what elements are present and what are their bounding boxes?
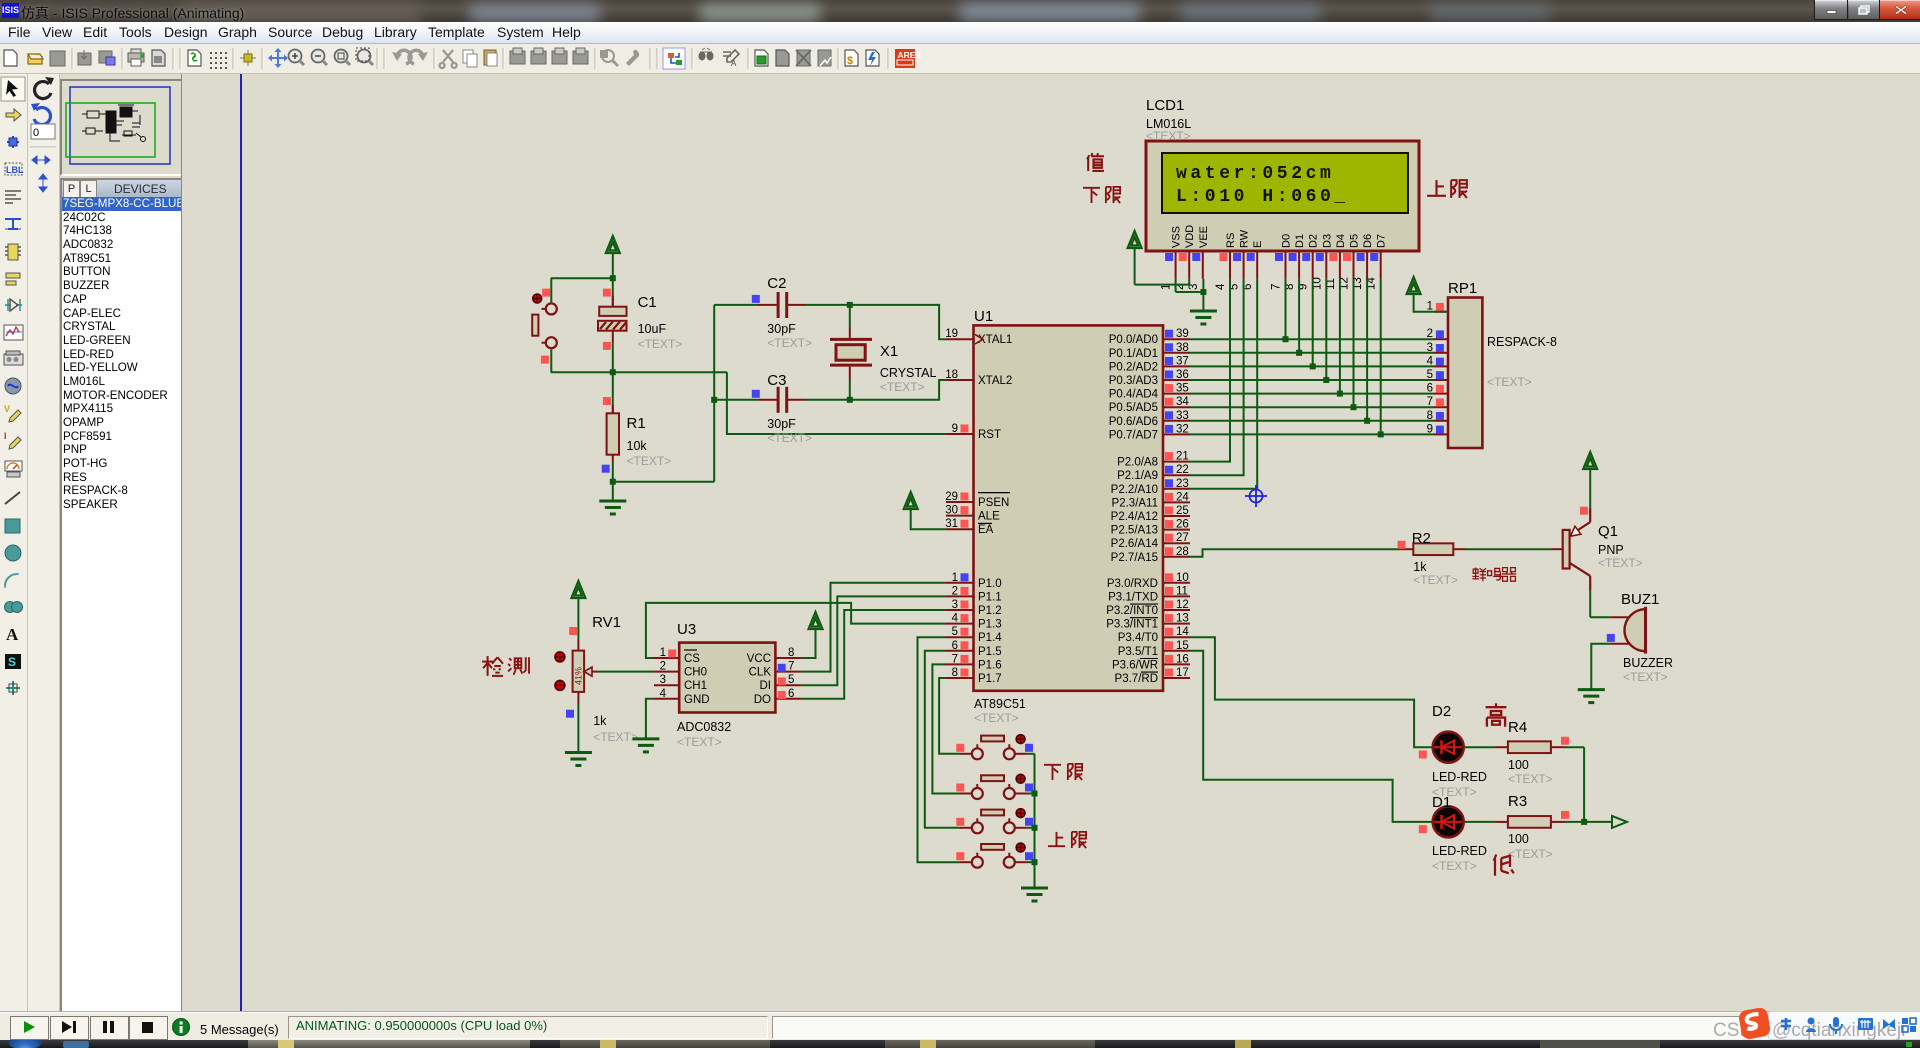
wire VSS to ground junction [1175,279,1177,292]
wire Q1 collector to buzzer [1589,590,1591,617]
C1 state squares [603,289,611,297]
annotation 下限 (buttons) [1044,765,1061,780]
svg-text:V: V [4,404,10,414]
resistor R2 1k [1401,548,1414,550]
wire C1 to lower rail [612,341,614,372]
junction X1 bottom [847,397,853,403]
U1 left pin stubs [946,338,974,340]
wire P2.7 to R2 [1190,549,1401,557]
reset button squares [542,289,550,297]
LCD1 LM016L display body [1146,141,1419,251]
resistor R4 100 [1464,746,1494,748]
junction top of C1 [610,275,616,281]
svg-text:S: S [8,655,16,669]
wire DI to P1.1 [802,596,946,685]
junction VEE/VSS [1200,289,1206,295]
RP1 pin1 power wire [1414,294,1448,312]
wire RW to P2.1 [1190,279,1244,475]
RV1 to ground [577,703,579,753]
wire P3.4 to D2 [1190,637,1432,747]
wire R2 to Q1 base [1466,548,1550,550]
buzzer to ground [1591,644,1610,690]
power symbol above RP1 [1407,277,1421,294]
output terminal arrow [1584,821,1612,823]
annotation 蜂鸣器 [1472,568,1486,582]
svg-text:I: I [4,431,7,441]
annotation 高 [1486,703,1507,726]
RP1 pin stubs numbers squares [1434,311,1448,313]
annotation 低 [1494,855,1514,876]
watermark [1500,1016,1920,1046]
wire VEE down to ground [1202,279,1204,311]
svg-text:$: $ [847,55,853,67]
reset button BUTTON vertical [550,278,552,302]
junction C1/R1 [610,369,616,375]
power above Q1 [1583,452,1597,469]
wire XTAL1 [850,305,946,339]
svg-text:ARES: ARES [898,50,922,60]
svg-text:A: A [6,625,19,644]
power symbol above C1 [606,236,620,253]
capacitor C1 10uF electrolytic [612,296,614,307]
crystal X1 [849,305,851,327]
junction X1 top [847,302,853,308]
wire R4 down to R3 node [1565,746,1585,748]
annotation 检测 [482,656,503,676]
buttons to P1.4-P1.7 wires [939,678,959,754]
power symbol EA [904,492,918,509]
wire CLK to P1.0 [802,583,946,672]
ADC U3 ADC0832 body [679,643,775,713]
svg-text:A: A [731,59,737,68]
button S3 [959,827,972,829]
P0 rows to RP1 [1190,338,1434,340]
annotation 下限 (LCD) [1083,188,1100,203]
transistor Q1 PNP [1563,530,1570,569]
junction under R1 [610,479,616,485]
LED D2 LED-RED [1432,746,1464,748]
LED D1 LED-RED [1432,821,1464,823]
resistor R1 10k [612,372,614,413]
edit cursor crosshair [1245,485,1267,507]
lower rail to RST [551,371,727,373]
svg-text:LBL: LBL [6,165,24,175]
button S4 [959,861,972,863]
resistor R3 100 [1464,821,1494,823]
wire R1 junction to caps vertical [613,481,714,483]
wire VDD to power [1135,284,1190,286]
data bus D0-D7 verticals [1285,279,1287,339]
wire DO to P1.2 [802,610,946,699]
U1 right pin stubs [1163,338,1190,340]
power symbol above RV1 [571,581,585,598]
U3 VCC to power [802,629,816,658]
chip U1 AT89C51 body [974,325,1164,690]
ground under R1 [599,501,626,514]
annotation 值 [1087,153,1104,171]
svg-text:0: 0 [33,127,39,139]
wire EA to power [911,509,946,529]
buttons common trunk [1034,754,1036,888]
annotation 上限 (LCD) [1427,180,1446,196]
buzzer BUZ1 [1611,616,1629,618]
resistor pack RP1 RESPACK-8 body [1448,298,1482,449]
button S2 [959,793,972,795]
wire into C1 [612,278,614,307]
potentiometer RV1 POT-HG [577,640,579,651]
power symbol left of LCD [1128,231,1142,248]
junction R3/R4 [1581,819,1587,825]
annotation 上限 (buttons) [1048,832,1065,846]
capacitor C2 30pF [714,304,758,306]
wire R1 to ground [612,462,614,501]
wire CS to P1.3 [646,603,946,658]
ground under buttons [1021,888,1048,901]
ground under LCD [1190,311,1217,324]
U3 GND to ground [646,699,654,739]
junction caps left C3 [711,397,717,403]
wire RV1 wiper to CH0 [598,671,654,673]
LCD pin stubs, names, numbers, state squares [1175,251,1177,279]
capacitor C3 30pF [714,399,758,401]
wire P3.5 to D1 [1190,651,1432,822]
button S1 [959,753,972,755]
wire reset top rail [551,277,613,279]
wire rail down-right to RST pin [727,372,946,434]
wire E to P2.2 [1190,279,1257,489]
wire XTAL2 [850,380,946,400]
sheet edge [240,74,242,1012]
ground under RV1 [565,753,592,766]
wire RS to P2.0 [1190,279,1230,462]
